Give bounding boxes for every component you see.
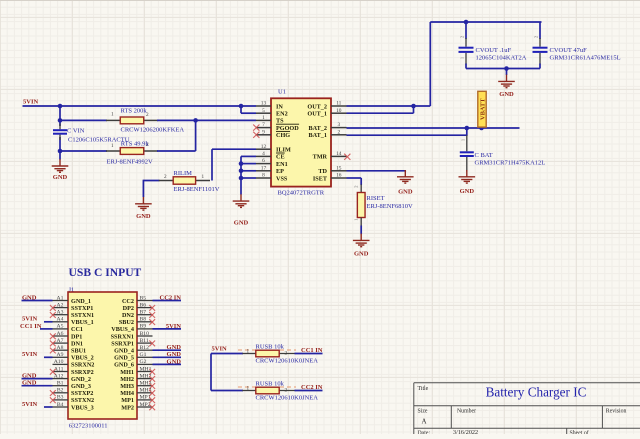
svg-text:B6: B6 <box>140 302 147 308</box>
svg-text:12065C104KAT2A: 12065C104KAT2A <box>476 55 527 62</box>
U1 pin 6 EN1 <box>256 163 271 165</box>
svg-text:VBUS_1: VBUS_1 <box>71 319 94 326</box>
J1 pin B4 VBUS_3 <box>53 406 69 408</box>
svg-text:B5: B5 <box>140 295 147 301</box>
svg-text:B11: B11 <box>140 338 149 344</box>
J1 pin A4 VBUS_1 <box>53 321 69 323</box>
svg-text:USB C INPUT: USB C INPUT <box>69 266 142 279</box>
J1 pin MP2 MP2 <box>137 406 153 408</box>
net label GND at J1 right <box>153 349 182 351</box>
svg-text:13: 13 <box>261 101 267 107</box>
wire RTS 200k pin2 to U1 TS pin <box>157 119 256 121</box>
svg-text:SSTXN2: SSTXN2 <box>71 397 94 404</box>
svg-text:VBUS_2: VBUS_2 <box>71 355 94 362</box>
J1 pin A5 CC1 <box>53 328 69 330</box>
svg-text:TS: TS <box>276 118 284 125</box>
svg-text:B1: B1 <box>57 381 64 387</box>
svg-text:GND: GND <box>167 351 182 358</box>
svg-text:SSTXP1: SSTXP1 <box>71 305 93 312</box>
svg-text:A6: A6 <box>57 331 64 337</box>
title block frame <box>414 383 640 434</box>
svg-text:17: 17 <box>261 165 267 171</box>
J1 pin B7 DN2 <box>137 314 153 316</box>
svg-text:U1: U1 <box>278 88 286 95</box>
J1 pin A8 SBU1 <box>53 349 69 351</box>
svg-text:CC1: CC1 <box>71 326 83 333</box>
wire RILIM pin2 down to ground <box>142 180 144 197</box>
svg-text:CVOUT 47uF: CVOUT 47uF <box>550 47 588 54</box>
node junction VSS <box>239 176 244 181</box>
node junction C BAT top <box>465 126 470 131</box>
J1 pin B3 SSTXN2 <box>53 399 69 401</box>
svg-text:GND: GND <box>22 294 37 301</box>
svg-text:CHG: CHG <box>276 132 290 139</box>
svg-text:A9: A9 <box>57 352 64 358</box>
net label 5VIN at J1 left <box>44 321 53 323</box>
svg-text:SSTXN1: SSTXN1 <box>71 312 94 319</box>
U1 pin 12 ILIM <box>256 148 271 150</box>
svg-text:ERJ-8ENF1101V: ERJ-8ENF1101V <box>174 186 220 193</box>
svg-text:2: 2 <box>285 388 288 394</box>
svg-text:Number: Number <box>457 409 476 415</box>
U1 pin 3 BAT_2 <box>331 127 347 129</box>
node junction EN1 <box>239 161 244 166</box>
svg-text:5VIN: 5VIN <box>212 345 227 352</box>
resistor RTS 49.9k <box>106 150 120 152</box>
ground GND at TD <box>397 170 414 183</box>
node junction TS / RTS 49.9k <box>193 118 198 123</box>
node junction OUT_1/OUT_2 <box>411 104 416 109</box>
wire OUT_2 to output node <box>347 105 431 107</box>
svg-text:BAT_1: BAT_1 <box>309 132 327 139</box>
ground GND at RISET <box>353 234 370 247</box>
J1 pin B1 GND_3 <box>53 385 69 387</box>
J1 pin B8 SBU2 <box>137 321 153 323</box>
U1 pin 5 EN2 <box>256 112 271 114</box>
wire ISET to RISET <box>347 177 362 179</box>
svg-text:GND: GND <box>398 189 413 196</box>
svg-text:1: 1 <box>111 111 114 117</box>
J1 pin A12 GND_2 <box>53 378 69 380</box>
U1 pin 4 CE <box>256 155 271 157</box>
svg-text:OUT_1: OUT_1 <box>307 111 327 118</box>
wire to RTS 49.9k pin 1 <box>60 150 107 152</box>
wire RUSB lower to CC2_IN <box>295 390 323 392</box>
ground GND at CVOUT <box>498 75 515 88</box>
svg-text:SSRXP2: SSRXP2 <box>71 369 94 376</box>
svg-text:Revision: Revision <box>606 409 627 415</box>
svg-text:RUSB 10k: RUSB 10k <box>256 380 285 387</box>
U1 pin 9 CHG <box>256 134 271 136</box>
svg-text:VBUS_3: VBUS_3 <box>71 404 94 411</box>
wire RTS 49.9k pin2 up to TS net <box>157 150 196 152</box>
svg-text:CC1 IN: CC1 IN <box>301 347 323 354</box>
J1 pin B5 CC2 <box>137 300 153 302</box>
U1 pin 10 OUT_1 <box>331 112 347 114</box>
svg-text:GND: GND <box>354 250 369 257</box>
svg-text:Size: Size <box>418 409 428 415</box>
net label 5VIN at J1 right <box>153 328 182 330</box>
U1 pin 13 IN <box>256 105 271 107</box>
wire TD to gnd <box>347 170 406 172</box>
svg-text:1: 1 <box>262 115 265 121</box>
svg-text:Title: Title <box>418 386 429 392</box>
svg-text:Sheet of: Sheet of <box>570 429 589 434</box>
node junction CVOUT gnd <box>504 66 509 71</box>
svg-text:ERJ-8ENF4992V: ERJ-8ENF4992V <box>107 158 154 165</box>
wire U1 CE/EN1/EP/VSS to ground rail <box>240 156 242 194</box>
svg-text:VBUS_4: VBUS_4 <box>111 326 134 333</box>
svg-text:TMR: TMR <box>313 154 328 161</box>
wire EN2 jog to IN net <box>239 104 244 109</box>
svg-text:SSRXP1: SSRXP1 <box>111 340 134 347</box>
svg-text:VSS: VSS <box>276 175 288 182</box>
U1 pin 8 VSS <box>256 177 271 179</box>
svg-text:GND_4: GND_4 <box>114 348 134 355</box>
svg-text:MH3: MH3 <box>120 383 134 390</box>
U1 pin 1 TS <box>256 119 271 121</box>
svg-text:EN2: EN2 <box>276 111 288 118</box>
U1 pin 11 OUT_2 <box>331 105 347 107</box>
svg-text:ILIM: ILIM <box>276 147 291 154</box>
svg-text:CVOUT .1uF: CVOUT .1uF <box>476 47 512 54</box>
svg-text:A3: A3 <box>57 310 64 316</box>
svg-text:ISET: ISET <box>313 175 328 182</box>
svg-text:A: A <box>422 418 427 426</box>
J1 pin MP1 MP1 <box>137 399 153 401</box>
J1 pin G2 GND_6 <box>137 363 153 365</box>
svg-text:DP2: DP2 <box>123 305 134 312</box>
svg-text:16: 16 <box>336 173 342 179</box>
J1 pin B6 DP2 <box>137 307 153 309</box>
J1 pin A2 SSTXP1 <box>53 307 69 309</box>
wire 5VIN to U1 pin IN <box>23 105 257 107</box>
svg-text:GND: GND <box>167 358 182 365</box>
svg-text:GND_5: GND_5 <box>114 355 134 362</box>
svg-text:8: 8 <box>262 173 265 179</box>
svg-text:9: 9 <box>262 129 265 135</box>
svg-text:5VIN: 5VIN <box>166 323 181 330</box>
node junction CVOUT .1uF top <box>464 20 469 25</box>
svg-text:5VIN: 5VIN <box>22 316 37 323</box>
svg-text:10: 10 <box>336 108 342 114</box>
no-ERC marker on U1 PGOOD <box>253 125 259 131</box>
resistor RTS 200k <box>106 119 120 121</box>
svg-text:G1: G1 <box>140 352 147 358</box>
svg-text:GND_2: GND_2 <box>71 376 91 383</box>
svg-text:RISET: RISET <box>367 195 385 202</box>
svg-text:A1: A1 <box>57 295 64 301</box>
svg-text:B10: B10 <box>140 331 150 337</box>
svg-text:B9: B9 <box>140 324 147 330</box>
capacitor C VIN <box>59 124 61 130</box>
svg-text:GND_6: GND_6 <box>114 362 134 369</box>
svg-text:CE: CE <box>276 154 285 161</box>
svg-text:TD: TD <box>318 168 327 175</box>
svg-text:OUT_2: OUT_2 <box>307 103 327 110</box>
svg-text:2: 2 <box>164 174 167 180</box>
svg-text:DN1: DN1 <box>71 340 83 347</box>
svg-text:C VIN: C VIN <box>67 128 85 135</box>
J1 pin B10 SSRXN1 <box>137 335 153 337</box>
svg-text:PGOOD: PGOOD <box>276 125 299 132</box>
net label 5VIN at J1 left <box>44 356 53 358</box>
J1 pin B2 SSTXP2 <box>53 392 69 394</box>
svg-text:A5: A5 <box>57 324 64 330</box>
svg-text:CRCW120610K0JNEA: CRCW120610K0JNEA <box>256 395 319 402</box>
svg-text:EP: EP <box>276 168 284 175</box>
wire CVOUT bottom rail <box>466 68 540 70</box>
node junction EP <box>239 169 244 174</box>
svg-text:CC2 IN: CC2 IN <box>301 384 323 391</box>
svg-text:GND: GND <box>460 188 475 195</box>
svg-text:SSRXN2: SSRXN2 <box>71 362 94 369</box>
J1 pin A6 DP1 <box>53 335 69 337</box>
net label CC1 IN at J1 left <box>40 328 53 330</box>
svg-text:CC2 IN: CC2 IN <box>160 294 182 301</box>
svg-text:6: 6 <box>262 158 265 164</box>
wire RILIM pin1 up to U1 ILIM <box>211 149 213 180</box>
svg-text:5VIN: 5VIN <box>23 99 38 106</box>
svg-text:GND: GND <box>136 213 151 220</box>
ground GND at C BAT <box>459 170 476 183</box>
wire OUT_1 up to output node <box>347 112 414 114</box>
svg-text:GND: GND <box>22 380 37 387</box>
svg-text:SBU1: SBU1 <box>71 348 86 355</box>
capacitor CVOUT .1uF <box>465 22 467 39</box>
svg-text:B4: B4 <box>57 402 64 408</box>
ground GND at RILIM <box>135 197 152 210</box>
capacitor C BAT <box>466 135 468 151</box>
no-ERC marker on U1 CHG <box>253 132 259 138</box>
J1 pin MH4 MH4 <box>137 392 153 394</box>
wire vertical 5VIN branch down to C VIN and GND <box>59 106 61 126</box>
svg-text:Date:: Date: <box>418 430 431 434</box>
wire BAT_2 rail <box>347 127 520 129</box>
svg-text:B12: B12 <box>140 345 150 351</box>
svg-text:1: 1 <box>111 143 114 149</box>
svg-text:1: 1 <box>247 385 250 391</box>
resistor RILIM <box>143 180 159 182</box>
svg-text:GND: GND <box>22 373 37 380</box>
svg-text:GND_3: GND_3 <box>71 383 91 390</box>
J1 pin G1 GND_5 <box>137 356 153 358</box>
svg-text:VBATT: VBATT <box>480 98 487 120</box>
svg-text:B2: B2 <box>57 388 64 394</box>
resistor RUSB 10k lower <box>238 386 296 388</box>
U1 pin 17 EP <box>256 170 271 172</box>
net label GND at J1 left <box>22 378 53 380</box>
svg-text:12: 12 <box>261 144 267 150</box>
svg-text:BQ24072TRGTR: BQ24072TRGTR <box>278 190 325 197</box>
resistor RISET <box>360 184 362 193</box>
svg-text:RTS 49.9k: RTS 49.9k <box>121 141 150 148</box>
svg-text:EN1: EN1 <box>276 161 288 168</box>
svg-text:GND: GND <box>53 174 68 181</box>
net label GND at J1 left <box>22 385 53 387</box>
J1 pin MH2 MH2 <box>137 378 153 380</box>
J1 pin A3 SSTXN1 <box>53 314 69 316</box>
wire BAT_1 to C BAT <box>347 134 467 136</box>
wire 5VIN to RUSB resistors <box>211 353 243 355</box>
svg-text:GND: GND <box>234 220 249 227</box>
svg-text:MH2: MH2 <box>120 376 134 383</box>
svg-text:5VIN: 5VIN <box>22 401 37 408</box>
op-amp U1 BQ24072TRGTR body <box>271 98 331 186</box>
svg-text:MH4: MH4 <box>120 390 134 397</box>
svg-text:RUSB 10k: RUSB 10k <box>256 343 285 350</box>
svg-text:SSRXN1: SSRXN1 <box>111 333 134 340</box>
capacitor CVOUT 47uF <box>539 22 541 39</box>
svg-text:DN2: DN2 <box>122 312 134 319</box>
J1 pin MH3 MH3 <box>137 385 153 387</box>
resistor RUSB 10k upper <box>238 349 296 351</box>
J1 pin A7 DN1 <box>53 342 69 344</box>
power port VBATT <box>478 91 486 127</box>
J1 pin A9 VBUS_2 <box>53 356 69 358</box>
svg-text:5VIN: 5VIN <box>22 351 37 358</box>
svg-text:B8: B8 <box>140 317 147 323</box>
svg-text:CC2: CC2 <box>122 298 134 305</box>
svg-text:GND_1: GND_1 <box>71 298 91 305</box>
svg-text:14: 14 <box>336 151 342 157</box>
svg-text:3/16/2022: 3/16/2022 <box>453 429 478 434</box>
svg-text:IN: IN <box>276 103 283 110</box>
svg-text:B7: B7 <box>140 310 147 316</box>
svg-text:GRM31CR71H475KA12L: GRM31CR71H475KA12L <box>475 159 546 166</box>
svg-text:BAT_2: BAT_2 <box>309 125 327 132</box>
svg-text:A2: A2 <box>57 302 64 308</box>
svg-text:C BAT: C BAT <box>475 152 493 159</box>
node junction VBATT <box>479 126 484 131</box>
svg-text:Battery Charger IC: Battery Charger IC <box>486 384 587 399</box>
svg-text:A10: A10 <box>54 359 64 365</box>
svg-text:MP1: MP1 <box>121 397 134 404</box>
svg-text:MP2: MP2 <box>121 404 134 411</box>
svg-text:2: 2 <box>285 351 288 357</box>
wire RISET to gnd <box>360 226 362 235</box>
svg-text:GND: GND <box>167 344 182 351</box>
svg-text:MH1: MH1 <box>120 369 134 376</box>
svg-text:B3: B3 <box>57 395 64 401</box>
svg-text:SSTXP2: SSTXP2 <box>71 390 93 397</box>
svg-text:RTS 200k: RTS 200k <box>121 108 148 115</box>
J1 pin B11 SSRXP1 <box>137 342 153 344</box>
wire RUSB upper to CC1_IN <box>295 353 323 355</box>
wire output riser to CVOUT rail <box>429 22 431 106</box>
wire down to gnd <box>506 69 508 76</box>
svg-text:CRCW120610K0JNEA: CRCW120610K0JNEA <box>256 358 319 365</box>
svg-text:1: 1 <box>202 174 205 180</box>
J1 pin A11 SSRXP2 <box>53 371 69 373</box>
U1 pin 15 TD <box>331 170 347 172</box>
net label CC2 IN at J1 right <box>153 300 182 302</box>
svg-text:CC1 IN: CC1 IN <box>20 323 42 330</box>
ground GND at C VIN <box>52 159 69 172</box>
node junction RTS 49.9k tap <box>58 149 63 154</box>
wire to RTS 200k pin 1 <box>60 119 107 121</box>
svg-text:A12: A12 <box>54 373 64 379</box>
svg-text:GRM31CR61A476ME15L: GRM31CR61A476ME15L <box>550 55 621 62</box>
J1 pin MH1 MH1 <box>137 371 153 373</box>
net label 5VIN at J1 left <box>44 406 53 408</box>
svg-text:11: 11 <box>336 101 341 107</box>
svg-text:632723100011: 632723100011 <box>69 422 108 429</box>
svg-text:A7: A7 <box>57 338 64 344</box>
net label GND at J1 left <box>22 300 53 302</box>
J1 pin B9 VBUS_4 <box>137 328 153 330</box>
svg-text:DP1: DP1 <box>71 333 82 340</box>
node junction TS divider top <box>58 118 63 123</box>
svg-text:1: 1 <box>247 348 250 354</box>
net label GND at J1 right <box>153 363 182 365</box>
svg-text:7: 7 <box>262 122 265 128</box>
U1 pin 7 PGOOD <box>256 127 271 129</box>
svg-text:G2: G2 <box>140 359 147 365</box>
svg-text:GND: GND <box>499 91 514 98</box>
svg-text:SBU2: SBU2 <box>119 319 134 326</box>
svg-text:3: 3 <box>337 122 340 128</box>
J1 pin A1 GND_1 <box>53 300 69 302</box>
svg-text:2: 2 <box>337 129 340 135</box>
J1 pin B12 GND_4 <box>137 349 153 351</box>
U1 pin 14 TMR <box>331 155 347 157</box>
net label GND at J1 right <box>153 356 182 358</box>
svg-text:A4: A4 <box>57 317 64 323</box>
svg-text:ERJ-8ENF6810V: ERJ-8ENF6810V <box>367 203 414 210</box>
no-ERC marker on U1 TMR <box>344 154 350 160</box>
U1 pin 16 ISET <box>331 177 347 179</box>
svg-text:A8: A8 <box>57 345 64 351</box>
node junction 5VIN/C VIN <box>58 104 63 109</box>
svg-text:CRCW1206200KFKEA: CRCW1206200KFKEA <box>121 126 185 133</box>
svg-text:RILIM: RILIM <box>174 170 193 177</box>
svg-text:15: 15 <box>336 165 342 171</box>
svg-text:5: 5 <box>262 108 265 114</box>
ground GND at U1 VSS chain <box>233 194 250 207</box>
svg-text:4: 4 <box>262 151 265 157</box>
J1 pin A10 SSRXN2 <box>53 363 69 365</box>
U1 pin 2 BAT_1 <box>331 134 347 136</box>
